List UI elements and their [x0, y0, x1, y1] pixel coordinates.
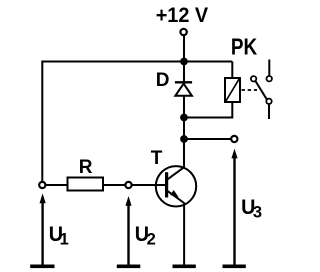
svg-text:R: R: [79, 157, 93, 178]
switch upper contact circle: [267, 76, 272, 81]
transistor emitter arrow: [170, 190, 179, 198]
mechanical link dashed: [242, 89, 258, 91]
switch lower stub: [268, 105, 270, 119]
wire relay coil bottom lead: [184, 102, 232, 118]
switch upper stub: [268, 60, 270, 76]
terminal +12V: [180, 29, 186, 35]
relay coil PK: [225, 78, 240, 102]
wire collector sense lead: [184, 138, 233, 140]
transistor collector lead: [166, 167, 185, 181]
terminal U1 input: [39, 182, 45, 188]
arrow U3: [231, 149, 237, 265]
svg-text:+12 V: +12 V: [156, 4, 209, 27]
transistor emitter lead: [166, 190, 184, 203]
wire top horizontal rail: [42, 61, 232, 63]
ground bar U2: [117, 265, 141, 269]
wire left vertical rail: [41, 61, 43, 183]
svg-text:T: T: [151, 148, 163, 169]
arrow U2: [125, 196, 131, 265]
switch blade: [256, 81, 267, 99]
terminal U2: [125, 182, 131, 188]
diode D: [175, 82, 192, 96]
ground bar emitter: [173, 265, 196, 269]
node junction sense: [180, 135, 188, 143]
wire relay coil top lead: [231, 62, 233, 80]
svg-text:3: 3: [253, 204, 262, 222]
ground bar U1: [30, 265, 54, 269]
svg-text:2: 2: [147, 231, 156, 249]
arrow U1: [40, 193, 46, 265]
terminal U3: [231, 136, 237, 142]
resistor R: [68, 178, 104, 191]
svg-text:1: 1: [60, 231, 69, 249]
node junction diode/relay/collector: [180, 114, 188, 122]
switch lower contact circle: [266, 99, 271, 104]
transistor T body: [156, 166, 196, 206]
wire base network: [46, 184, 167, 186]
wire main vertical branch: [183, 62, 185, 169]
svg-text:PK: PK: [231, 34, 258, 60]
transistor base bar: [165, 172, 168, 197]
svg-text:D: D: [156, 70, 170, 91]
ground bar U3: [223, 265, 246, 269]
wire supply stub: [183, 36, 185, 62]
wire emitter to ground: [183, 203, 185, 267]
node junction at supply rail: [180, 58, 188, 66]
switch blade pivot circle: [251, 76, 256, 81]
